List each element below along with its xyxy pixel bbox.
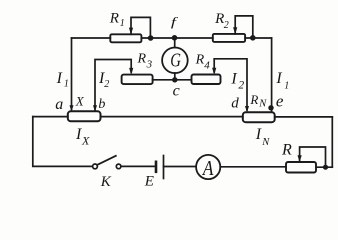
- resistor X bar (unknown low resistance): [68, 111, 101, 121]
- wire left side down to bottom loop: [33, 117, 93, 167]
- svg-text:2: 2: [224, 20, 229, 31]
- node dot at R output: [323, 165, 328, 170]
- svg-text:R: R: [109, 10, 119, 26]
- wire R3 to c to R4: [153, 79, 192, 81]
- resistor R1: [110, 34, 141, 42]
- arrowhead current I1 at a: [70, 105, 74, 112]
- wire battery to ammeter: [164, 166, 197, 168]
- svg-text:I: I: [75, 126, 82, 143]
- battery E long plate: [163, 156, 165, 179]
- wire left outer vertical (I1 branch): [71, 38, 73, 110]
- wire R4 wiper to inner-right branch down to d: [214, 59, 247, 110]
- resistor R3: [122, 75, 153, 85]
- svg-text:3: 3: [146, 59, 153, 71]
- svg-text:R: R: [249, 92, 258, 107]
- galvanometer U-G: [162, 48, 188, 74]
- wire switch to battery: [121, 165, 156, 167]
- arrowhead R3 wiper: [129, 68, 133, 75]
- rheostat R: [286, 162, 316, 173]
- wire galvanometer to node c: [174, 73, 176, 80]
- svg-text:R: R: [195, 53, 205, 68]
- svg-text:2: 2: [104, 79, 109, 90]
- wire top rail: [72, 37, 272, 39]
- wire current rail middle segment X to RN: [101, 116, 243, 118]
- wire ammeter to rheostat R: [220, 166, 286, 168]
- svg-text:R: R: [214, 11, 224, 27]
- svg-text:X: X: [75, 93, 85, 108]
- svg-text:N: N: [258, 98, 267, 109]
- switch K contact right: [116, 164, 121, 169]
- node dot after R2: [250, 35, 256, 41]
- svg-text:I: I: [255, 126, 262, 143]
- svg-text:E: E: [144, 174, 154, 190]
- svg-text:c: c: [173, 82, 180, 99]
- svg-text:I: I: [56, 70, 63, 87]
- arrowhead R wiper: [298, 155, 302, 162]
- switch K contact left: [93, 164, 98, 169]
- svg-text:I: I: [230, 71, 237, 88]
- svg-text:d: d: [231, 96, 239, 112]
- node e: [268, 105, 273, 110]
- svg-text:b: b: [98, 97, 105, 112]
- resistor RN bar (standard resistance): [243, 112, 275, 122]
- arrowhead R2 wiper: [233, 27, 237, 34]
- wire right side vertical closing loop: [331, 117, 333, 167]
- svg-text:1: 1: [120, 18, 125, 29]
- svg-text:f: f: [171, 16, 179, 30]
- svg-text:R: R: [281, 141, 292, 158]
- arrowhead R1 wiper: [129, 28, 133, 35]
- arrowhead current I2 at b: [93, 105, 97, 112]
- svg-text:4: 4: [204, 60, 210, 72]
- arrowhead current I2 at d: [245, 106, 249, 113]
- resistor R2: [213, 34, 245, 42]
- svg-text:R: R: [137, 52, 147, 67]
- resistor R4: [192, 75, 221, 85]
- svg-text:e: e: [276, 92, 284, 111]
- wire current rail right segment RN to right corner: [275, 116, 333, 118]
- svg-text:a: a: [55, 96, 63, 113]
- svg-text:K: K: [100, 174, 112, 190]
- wire R2 wiper loop: [235, 16, 253, 35]
- node f: [172, 35, 178, 41]
- node c: [172, 77, 177, 82]
- ammeter U-A: [196, 155, 220, 179]
- svg-text:I: I: [275, 70, 282, 87]
- wire R1 wiper loop: [131, 17, 150, 35]
- node dot after R1: [148, 35, 154, 41]
- wire f to galvanometer: [174, 40, 176, 48]
- switch K lever: [97, 156, 116, 165]
- wire right outer vertical from R2 to e: [271, 38, 273, 111]
- wire R to right corner: [316, 166, 332, 168]
- battery E short plate: [155, 162, 158, 172]
- svg-text:1: 1: [284, 80, 289, 91]
- wire inner-left branch b to R3 wiper: [95, 60, 131, 112]
- wire R wiper loop: [300, 147, 326, 165]
- svg-text:2: 2: [238, 80, 244, 92]
- arrowhead R4 wiper: [212, 68, 216, 75]
- svg-text:N: N: [261, 137, 270, 148]
- svg-text:G: G: [170, 48, 181, 71]
- svg-text:1: 1: [64, 79, 69, 90]
- svg-text:X: X: [81, 134, 90, 148]
- wire current rail left segment: [33, 116, 68, 118]
- svg-text:A: A: [201, 158, 214, 181]
